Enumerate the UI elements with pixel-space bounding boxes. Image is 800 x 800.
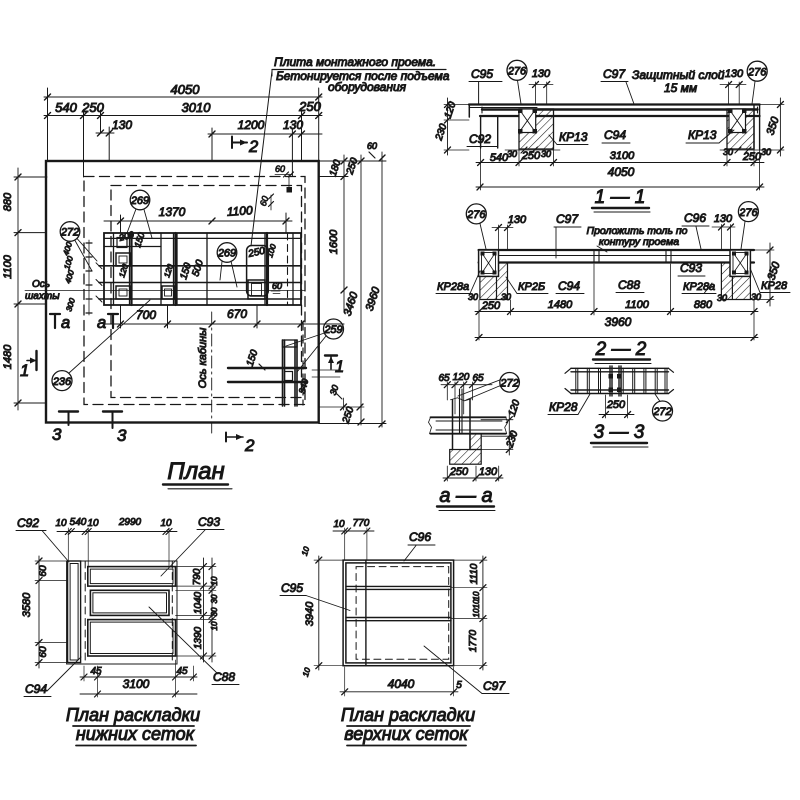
section marks 3 bottom (52, 412, 127, 446)
dim 700 670 (104, 305, 344, 328)
svg-text:4050: 4050 (608, 165, 635, 179)
S1-1 slab (469, 103, 760, 105)
svg-text:КР28: КР28 (549, 400, 578, 414)
leader 236 to band (69, 300, 150, 373)
svg-text:3010: 3010 (182, 100, 212, 115)
S1-1 right wall (754, 105, 760, 150)
svg-text:Ось: Ось (32, 279, 50, 290)
MR dashed inner rect (356, 567, 449, 660)
plan dashed shaft wall outer (84, 177, 305, 405)
svg-text:130: 130 (283, 118, 303, 132)
svg-text:1600: 1600 (328, 229, 340, 254)
S1-1 right dim 350 (760, 98, 784, 156)
ML right dims column (176, 558, 220, 662)
svg-text:45: 45 (90, 666, 102, 677)
S1-1 dim row 540 250 3100 250 (476, 148, 764, 190)
svg-text:2: 2 (244, 436, 255, 455)
ML mesh bottom (88, 620, 176, 656)
svg-text:259: 259 (323, 324, 342, 336)
S2-2 left end box (479, 250, 499, 276)
svg-text:контуру проема: контуру проема (599, 236, 679, 248)
svg-text:60: 60 (38, 646, 49, 658)
S1-1 left slab tip (468, 105, 470, 118)
S1-1 circle 276 left (507, 60, 527, 80)
svg-text:C95: C95 (281, 581, 303, 595)
Saa leaders 272 (458, 380, 501, 401)
svg-text:КР2Б: КР2Б (518, 281, 545, 293)
section mark T1 (325, 356, 344, 377)
svg-text:3940: 3940 (304, 601, 316, 626)
Saa circle 272 (500, 373, 520, 393)
svg-text:2990: 2990 (118, 517, 142, 528)
Saa wall rebar (460, 389, 463, 434)
svg-text:272: 272 (652, 406, 671, 418)
svg-text:276: 276 (747, 66, 767, 78)
svg-text:540: 540 (70, 517, 87, 528)
S2-2 circle 276 left (466, 204, 486, 224)
svg-text:10: 10 (210, 576, 219, 585)
ML mesh C92 strip (68, 561, 81, 663)
svg-text:C94: C94 (604, 128, 626, 142)
svg-text:130: 130 (532, 68, 551, 80)
right dim line 3960 (319, 152, 386, 427)
svg-text:нижних сеток: нижних сеток (76, 724, 196, 744)
svg-text:1100: 1100 (226, 203, 253, 219)
lower rebar cluster horizontal bars (228, 368, 306, 382)
svg-text:1110: 1110 (469, 563, 480, 584)
svg-text:C93: C93 (198, 515, 220, 529)
svg-text:верхних сеток: верхних сеток (344, 724, 469, 744)
opening 250 rounded (247, 246, 269, 297)
svg-text:269: 269 (130, 195, 149, 207)
svg-text:C97: C97 (556, 212, 579, 226)
dim 250 rotated lower right (319, 398, 364, 426)
S2-2 right hatch wall (732, 276, 750, 299)
right dim line 3460 (342, 155, 364, 425)
svg-text:C94: C94 (25, 682, 47, 696)
circle 272 left (60, 222, 80, 242)
svg-text:C96: C96 (409, 530, 431, 544)
svg-text:План раскладки: План раскладки (66, 705, 200, 725)
svg-text:C93: C93 (680, 261, 702, 275)
ML mesh middle (90, 590, 169, 615)
svg-text:C95: C95 (471, 67, 493, 81)
leaders 272 (75, 239, 97, 272)
svg-text:130: 130 (479, 466, 498, 478)
svg-text:План раскладки: План раскладки (341, 705, 475, 725)
svg-text:880: 880 (2, 192, 14, 211)
embed box 1 (116, 253, 130, 266)
svg-text:C92: C92 (17, 516, 39, 530)
svg-text:880: 880 (694, 299, 713, 311)
svg-text:30: 30 (501, 292, 511, 302)
S2-2 slab joints (594, 250, 671, 263)
MR right dims 1110 10 10 1770 (451, 556, 487, 670)
MR mesh outer double rect (343, 560, 454, 666)
interior dim 60 rotated (258, 194, 274, 210)
svg-text:30: 30 (541, 149, 551, 159)
left small dims column 400 100 400 100 300 (61, 240, 92, 315)
note: plita montazhnogo proyema (272, 55, 450, 94)
svg-text:10: 10 (333, 519, 345, 530)
S3-3 middle bars (610, 366, 621, 396)
svg-text:276: 276 (507, 66, 527, 78)
dim row 540 250 3010 250 (44, 99, 322, 177)
leader from note to opening (251, 71, 272, 246)
svg-text:30: 30 (723, 147, 733, 157)
circle 236 (52, 371, 72, 391)
svg-text:250: 250 (606, 399, 626, 411)
svg-text:1040: 1040 (193, 591, 204, 614)
svg-text:30: 30 (468, 292, 478, 302)
svg-text:4050: 4050 (171, 82, 201, 97)
S2-2 dim row 250 1480 1100 880 (475, 264, 758, 340)
Saa right dims 120 230 (508, 410, 510, 455)
dim row 130 / 1200 130 (96, 118, 322, 176)
svg-text:1200: 1200 (238, 118, 265, 132)
svg-text:30: 30 (751, 292, 761, 302)
S2-2 right dim 350 (750, 243, 783, 306)
svg-text:а: а (61, 314, 70, 332)
svg-text:3100: 3100 (123, 677, 150, 691)
svg-text:15 мм: 15 мм (664, 81, 697, 95)
svg-text:C97: C97 (483, 679, 506, 693)
svg-text:3580: 3580 (21, 592, 33, 617)
band top-left mini box (117, 238, 127, 248)
svg-text:3: 3 (52, 425, 62, 444)
svg-text:1480: 1480 (548, 299, 573, 311)
svg-text:790: 790 (192, 568, 203, 585)
svg-text:1100: 1100 (2, 254, 14, 279)
Saa slab (431, 417, 506, 433)
band left arrow ticks (96, 263, 102, 302)
band vertical divisions (114, 233, 294, 305)
S3-3 end hooks (565, 368, 674, 393)
svg-text:оборудования: оборудования (328, 80, 407, 94)
section marks a-a (50, 314, 118, 332)
svg-text:4040: 4040 (388, 677, 415, 691)
svg-text:272: 272 (60, 227, 79, 239)
svg-text:540: 540 (55, 100, 77, 115)
S3-3 stirrups (576, 368, 667, 393)
svg-text:а: а (97, 314, 106, 332)
svg-text:30: 30 (717, 293, 727, 303)
svg-text:3: 3 (117, 426, 127, 445)
svg-text:1770: 1770 (468, 629, 479, 652)
S1-1 circle 276 right (747, 61, 767, 81)
svg-text:250: 250 (521, 150, 541, 162)
dim 1370 1100 (104, 203, 292, 233)
MR left dims 10 3940 10 (300, 545, 344, 678)
svg-text:30: 30 (210, 594, 219, 603)
S1-1 left wall below slab (481, 116, 498, 148)
S1-1 right pier hatched (727, 109, 754, 149)
svg-text:C97: C97 (603, 67, 626, 81)
cabin axis: Os kabiny (197, 312, 212, 433)
svg-text:1 — 1: 1 — 1 (595, 187, 646, 208)
embed box 4 (248, 280, 265, 299)
circle 259 (324, 319, 344, 339)
svg-text:10: 10 (160, 518, 172, 529)
interior dim 60 top (275, 164, 294, 177)
svg-text:10: 10 (87, 518, 99, 529)
ML mesh C93 strip (88, 567, 176, 587)
svg-text:1370: 1370 (159, 205, 186, 219)
band horizontal rebar lines (99, 266, 301, 299)
S2-2 right end box (730, 250, 750, 276)
embed box 3 (162, 286, 174, 299)
svg-text:250: 250 (81, 100, 104, 115)
svg-text:Ось кабины: Ось кабины (197, 328, 209, 389)
Saa wall verticals (453, 400, 471, 450)
svg-text:276: 276 (738, 207, 758, 219)
svg-text:60: 60 (38, 565, 49, 577)
svg-text:КР28а: КР28а (437, 281, 469, 293)
svg-text:130: 130 (714, 213, 733, 225)
svg-text:250: 250 (449, 466, 469, 478)
dim row 4050 (44, 82, 322, 161)
ML slab dashed edges (84, 561, 86, 664)
leaders 269 (127, 209, 152, 238)
shaft axis: Os shakhty (25, 279, 305, 302)
svg-text:КР13: КР13 (688, 128, 717, 142)
svg-text:КР13: КР13 (559, 130, 588, 144)
svg-text:250: 250 (481, 300, 501, 312)
S2-2 circle 276 right (738, 202, 758, 222)
circle 269 mid (217, 243, 237, 263)
svg-text:272: 272 (499, 377, 518, 389)
S2-2 left hatch wall (480, 276, 497, 299)
svg-text:1: 1 (20, 362, 29, 380)
svg-text:60: 60 (272, 281, 282, 291)
svg-text:10: 10 (472, 591, 481, 600)
svg-text:30: 30 (210, 607, 219, 616)
svg-text:250: 250 (742, 151, 762, 163)
band dashed vertical (287, 233, 289, 305)
svg-text:C92: C92 (469, 132, 491, 146)
svg-text:1480: 1480 (2, 344, 14, 369)
leaders 259 (286, 333, 326, 372)
leaders 269 mid (220, 261, 237, 287)
ML slab boundary (67, 561, 177, 664)
section mark 2 top (232, 137, 247, 149)
svg-text:269: 269 (217, 248, 236, 260)
left dim column 880 1100 1480 (2, 168, 47, 410)
svg-text:45: 45 (176, 666, 188, 677)
svg-text:3 — 3: 3 — 3 (594, 422, 645, 443)
embed box 2 (116, 286, 130, 299)
svg-text:План: План (167, 458, 224, 485)
svg-text:65: 65 (438, 373, 450, 384)
svg-text:Защитный слой: Защитный слой (632, 68, 725, 82)
svg-text:C96: C96 (684, 211, 706, 225)
S1-1 left pier hatched (519, 109, 554, 149)
S1-1 left pier rebar cage (519, 109, 536, 133)
svg-text:1: 1 (335, 358, 344, 376)
svg-text:шахты: шахты (25, 291, 60, 302)
svg-text:Плита монтажного проема.: Плита монтажного проема. (274, 55, 436, 69)
MR band lines (346, 586, 451, 620)
svg-text:60: 60 (275, 164, 285, 174)
svg-text:770: 770 (353, 518, 370, 529)
svg-text:10: 10 (472, 599, 481, 608)
S1-1 right pier rebar cage (729, 109, 746, 133)
svg-text:30: 30 (761, 147, 771, 157)
S1-1 left dims 120 230 (434, 98, 469, 155)
svg-text:236: 236 (52, 376, 72, 388)
lower cluster dashed edge (302, 322, 304, 405)
svg-text:60: 60 (367, 141, 377, 151)
svg-text:3960: 3960 (605, 315, 632, 329)
section mark 2 bottom (226, 433, 255, 456)
svg-text:C94: C94 (558, 279, 580, 293)
central detail band outer (104, 233, 301, 305)
Saa slab breaks (429, 417, 508, 433)
S3-3 circle 272 (653, 401, 673, 421)
svg-text:1100: 1100 (625, 299, 650, 311)
section mark 1 left (20, 351, 37, 380)
svg-text:10: 10 (472, 608, 481, 617)
MR inner vertical C95 edge (365, 560, 367, 666)
ML left dims 60 3580 60 (21, 556, 67, 668)
interior corner mark (287, 187, 293, 193)
svg-text:КР28а: КР28а (683, 281, 715, 293)
svg-text:10: 10 (210, 621, 219, 630)
svg-text:5: 5 (456, 680, 462, 691)
right dim line 180 1600 (319, 155, 348, 312)
svg-text:2: 2 (248, 138, 258, 156)
svg-text:276: 276 (466, 209, 486, 221)
circle 269 top (130, 190, 150, 210)
lower rebar cluster vertical bars (283, 340, 298, 406)
lower cluster embed box (285, 372, 293, 381)
S3-3 beam chords (571, 368, 669, 393)
plan outer rect (46, 161, 319, 423)
plan dashed shaft wall inner (111, 186, 302, 398)
Saa footing hatch (450, 450, 482, 465)
svg-text:670: 670 (227, 307, 247, 321)
svg-text:а — а: а — а (439, 485, 492, 507)
svg-text:C88: C88 (618, 278, 640, 292)
svg-text:130: 130 (112, 118, 132, 132)
svg-text:3100: 3100 (610, 150, 635, 162)
S2-2 slab (479, 249, 754, 251)
Saa wall top break (451, 398, 472, 401)
svg-text:10: 10 (55, 518, 67, 529)
svg-text:130: 130 (725, 68, 744, 80)
svg-text:1390: 1390 (193, 626, 204, 649)
svg-text:30: 30 (507, 149, 517, 159)
svg-text:2 — 2: 2 — 2 (595, 339, 647, 360)
